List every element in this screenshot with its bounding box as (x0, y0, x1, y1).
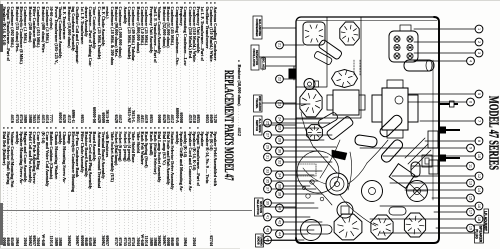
leader wire (434, 211, 467, 213)
callout 4 (467, 57, 475, 65)
callout 18 (475, 215, 483, 223)
svg-text:31: 31 (265, 155, 269, 159)
leader wire (420, 120, 475, 122)
svg-text:40: 40 (277, 206, 281, 210)
callout 20 (475, 229, 483, 237)
column rule (0, 209, 252, 212)
leader wire (414, 41, 475, 43)
dashed mounting line (354, 60, 360, 76)
svg-text:29: 29 (265, 145, 269, 149)
dial cord long runs (301, 112, 388, 226)
chassis inner rail (432, 60, 434, 200)
svg-text:19: 19 (468, 226, 472, 230)
callout 24 (276, 115, 284, 123)
svg-text:28: 28 (277, 138, 281, 142)
svg-text:26: 26 (277, 126, 281, 130)
leader wire (283, 207, 318, 209)
svg-text:18: 18 (477, 217, 481, 221)
tube socket V1 (oct) (340, 22, 359, 45)
leader wire (271, 229, 314, 231)
callout 39 (264, 199, 272, 207)
svg-text:STATIONSELECTOR: STATIONSELECTOR (256, 199, 263, 214)
tube socket V8 (oct) (404, 213, 425, 237)
callout 40 (276, 204, 284, 212)
label tuning knob (256, 234, 264, 247)
callout 26 (276, 124, 284, 132)
tube socket V2 (oct) (300, 89, 322, 117)
svg-text:25: 25 (265, 121, 269, 125)
leader wire (283, 185, 310, 187)
leader wire (271, 122, 330, 124)
callout 11 (467, 162, 475, 170)
scan edge left (0, 0, 500, 1)
electrolytic condenser C20 (404, 60, 434, 71)
leader wire (259, 28, 296, 241)
leader wire (271, 180, 318, 182)
callout 19 (467, 224, 475, 232)
callout 33 (264, 167, 272, 175)
header MODEL 47 SERIES (486, 27, 499, 240)
condenser can (tilted pill c) (380, 138, 405, 164)
callout 23 (276, 100, 284, 108)
leader wire (271, 239, 304, 241)
callout 41 (264, 213, 272, 221)
leader wire (383, 155, 475, 157)
svg-text:12: 12 (477, 174, 481, 178)
leader wire (283, 221, 322, 223)
leader wire (283, 174, 314, 176)
tube socket V5 big oct (334, 214, 362, 240)
svg-text:41: 41 (265, 215, 269, 219)
callout 7 (475, 117, 483, 125)
svg-text:10: 10 (477, 154, 481, 158)
bypass condenser block C10 (tilted) (326, 115, 354, 140)
control shaft 1 (439, 101, 458, 107)
scan edge displayed-left (0, 0, 1, 249)
svg-text:30: 30 (277, 149, 281, 153)
callout 38 (276, 190, 284, 198)
leader wire (432, 197, 467, 199)
callout 37 (264, 185, 272, 193)
leader wire (370, 218, 475, 220)
condenser fins (405, 138, 431, 170)
leader wire (414, 60, 467, 62)
leader wire (283, 127, 318, 129)
audio transformer T2 (327, 90, 365, 115)
callout 22 (276, 75, 284, 83)
tube socket V7 (oct) (371, 215, 393, 239)
condenser block C11 (tilted) (318, 39, 343, 60)
svg-text:37: 37 (265, 187, 269, 191)
callout 5 (475, 90, 483, 98)
drive drum P1 (362, 181, 383, 202)
volume control pot body (428, 131, 438, 148)
svg-text:TUNINGKNOB: TUNINGKNOB (256, 235, 263, 246)
coil L1 with pill (301, 220, 333, 241)
svg-text:7: 7 (477, 120, 481, 122)
drive pulley circle (297, 151, 339, 193)
svg-text:ALL WAVESWITCH: ALL WAVESWITCH (255, 118, 262, 132)
small rivets (310, 180, 314, 184)
callout 17 (467, 208, 475, 216)
leader wire (405, 189, 475, 191)
leader wire (414, 28, 475, 30)
leader wire (283, 139, 324, 141)
leader wire (271, 134, 332, 136)
leader wire (360, 147, 467, 149)
leader wire (283, 103, 310, 105)
bracket rects (422, 155, 432, 167)
svg-text:39: 39 (265, 201, 269, 205)
svg-text:21: 21 (277, 43, 281, 47)
leader wire (283, 161, 332, 163)
label all wave switch (254, 116, 263, 135)
svg-text:11: 11 (468, 164, 472, 168)
svg-text:23: 23 (277, 102, 281, 106)
callout 32 (276, 158, 284, 166)
condenser can (tilted pill b) (378, 113, 404, 138)
power transformer T1 (372, 80, 418, 138)
callout 27 (264, 131, 272, 139)
callout 34 (276, 171, 284, 179)
leader wire (283, 150, 320, 152)
tube shield partition (296, 17, 361, 118)
leader wire (271, 156, 328, 158)
leader wire (283, 233, 308, 235)
callout 44 (276, 230, 284, 238)
svg-text:17: 17 (468, 210, 472, 214)
callout 16 (475, 202, 483, 210)
leader wire (271, 188, 316, 190)
condenser can (pill small) (411, 162, 420, 177)
svg-text:9: 9 (468, 147, 472, 149)
svg-text:34: 34 (277, 173, 281, 177)
leader wire (271, 202, 314, 204)
trimmer with tab (304, 79, 319, 90)
label detector oscillator (251, 45, 259, 70)
callout 36 (276, 182, 284, 190)
chassis outline (296, 17, 439, 243)
callout 12 (475, 172, 483, 180)
control shaft 3 (439, 155, 460, 162)
leader wire (283, 44, 304, 46)
condenser can (pill horizontal) (354, 135, 377, 148)
electrolytic pill vertical (389, 207, 406, 215)
label osc adjust (261, 57, 266, 71)
control shaft 2 (439, 127, 460, 134)
leader wire (425, 140, 475, 142)
dial cord path (303, 140, 367, 214)
svg-text:I.F. ADJUST: I.F. ADJUST (484, 211, 488, 232)
IF transformer can U1 (303, 22, 325, 45)
svg-text:6: 6 (468, 101, 472, 103)
leader wire (411, 165, 467, 167)
callout 6 (467, 98, 475, 106)
svg-text:43: 43 (265, 228, 269, 232)
callout 15 (467, 194, 475, 202)
leader wire (436, 227, 467, 229)
leader wire (271, 216, 310, 218)
svg-text:44: 44 (277, 232, 281, 236)
label balancing condenser (253, 16, 262, 39)
callout 42 (276, 218, 284, 226)
svg-text:36: 36 (277, 184, 281, 188)
callout 1 (475, 25, 483, 33)
callout 2 (475, 38, 483, 46)
callout 3 (475, 49, 483, 57)
leader wire (283, 118, 322, 120)
svg-text:22: 22 (277, 77, 281, 81)
svg-text:8: 8 (477, 140, 481, 142)
callout 21 (276, 41, 284, 49)
svg-text:24: 24 (277, 117, 281, 121)
callout 10 (475, 152, 483, 160)
callout 31 (264, 153, 272, 161)
callout 13 (467, 179, 475, 187)
callout 29 (264, 143, 272, 151)
shielded can V3 (332, 70, 358, 88)
leader wire (283, 193, 322, 195)
leader wire (390, 182, 467, 184)
callout 35 (264, 177, 272, 185)
svg-text:13: 13 (468, 181, 472, 185)
header REPLACEMENT PARTS (222, 70, 235, 181)
tube socket V6 (337, 202, 353, 218)
svg-text:15: 15 (468, 196, 472, 200)
svg-text:32: 32 (277, 160, 281, 164)
callout 45 (264, 236, 272, 244)
label 2nd audio (254, 95, 263, 112)
dial hub assembly (326, 173, 348, 195)
callout 25 (264, 119, 272, 127)
label station selector (255, 198, 264, 216)
callout 28 (276, 136, 284, 144)
callout 30 (276, 147, 284, 155)
leader wire (392, 175, 475, 177)
svg-text:5: 5 (477, 93, 481, 95)
tilted mounting block (389, 164, 415, 189)
svg-text:35: 35 (265, 179, 269, 183)
chassis lip line (297, 20, 437, 22)
svg-text:BALANCINGCONDENSER: BALANCINGCONDENSER (255, 19, 262, 37)
chassis rear apron (bold edge) (296, 17, 439, 243)
svg-text:4: 4 (468, 60, 472, 62)
leader wire (408, 93, 475, 95)
scan edge bottom smudge a (1, 4, 4, 52)
tone control pot body (429, 160, 438, 174)
svg-text:2: 2 (477, 41, 481, 43)
antenna terminal (289, 66, 296, 80)
label speaker plug (475, 225, 484, 243)
leader wire (414, 52, 475, 54)
svg-text:42: 42 (277, 220, 281, 224)
tube socket V4 small oct (307, 125, 323, 141)
svg-text:45: 45 (265, 238, 269, 242)
scan edge displayed-bottom (0, 248, 240, 249)
svg-text:1: 1 (477, 28, 481, 30)
tuning drum P2 (407, 181, 428, 202)
leader wire (408, 101, 467, 103)
leader wire (380, 232, 475, 234)
svg-text:OSC. ADJ.: OSC. ADJ. (262, 57, 266, 71)
leader wire (380, 205, 475, 207)
stray list line (237, 60, 241, 136)
svg-text:14: 14 (477, 188, 481, 192)
callout 9 (467, 144, 475, 152)
part box dashed (296, 164, 316, 176)
scan edge bottom smudge b (1, 203, 4, 245)
svg-text:3: 3 (477, 52, 481, 54)
svg-text:16: 16 (477, 204, 481, 208)
svg-text:DETECTOROSCILLATOR: DETECTOROSCILLATOR (252, 49, 259, 67)
callout 43 (264, 226, 272, 234)
dial pointer (black) (332, 150, 347, 160)
svg-text:27: 27 (265, 133, 269, 137)
label antenna lead (484, 209, 489, 233)
leader wire (283, 78, 296, 80)
svg-text:33: 33 (265, 169, 269, 173)
svg-text:38: 38 (277, 192, 281, 196)
callout 8 (475, 137, 483, 145)
leader wire (271, 146, 336, 148)
leader wire (271, 170, 322, 172)
terminal board TB1 (389, 25, 418, 62)
callout 14 (475, 186, 483, 194)
